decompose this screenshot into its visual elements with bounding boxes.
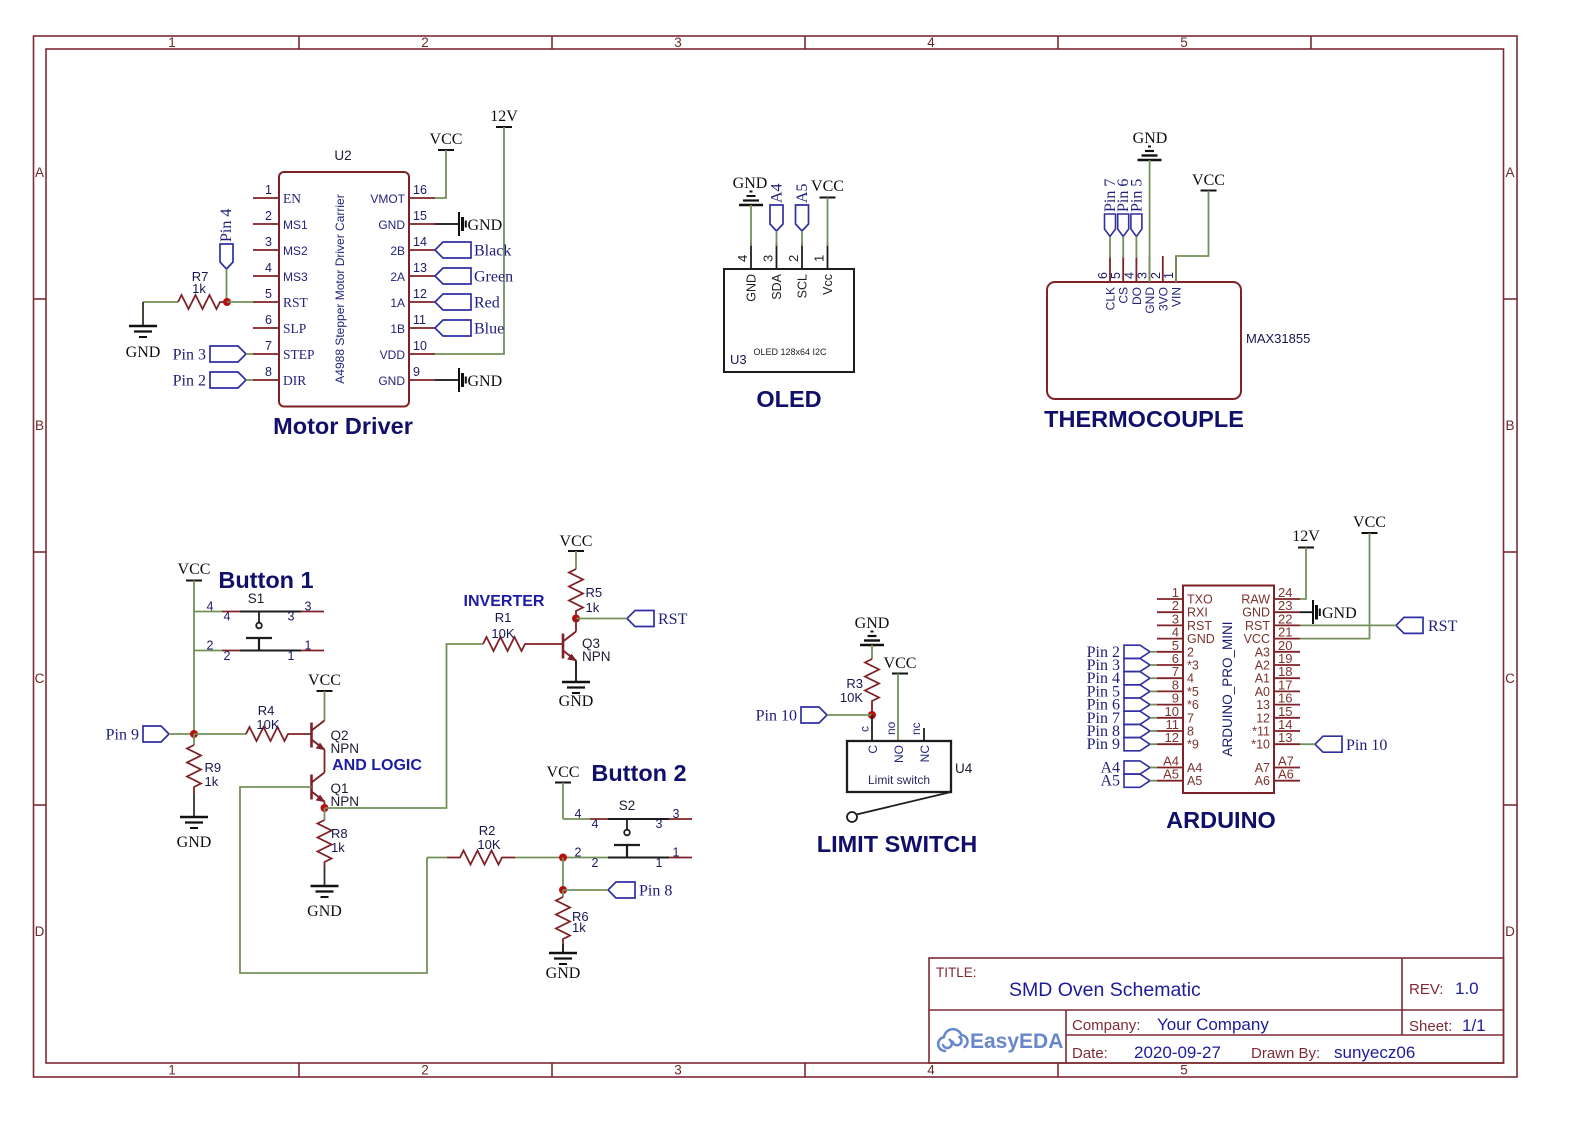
resistor R4 10K	[246, 703, 312, 741]
svg-text:7: 7	[1187, 711, 1194, 725]
svg-text:2020-09-27: 2020-09-27	[1134, 1043, 1221, 1062]
svg-text:RXI: RXI	[1187, 606, 1208, 620]
svg-text:B: B	[35, 418, 44, 433]
svg-text:RST: RST	[1245, 619, 1270, 633]
wire A4 flag to pin A4	[1150, 767, 1157, 769]
wire Pin5 flag to pin8	[1150, 690, 1157, 692]
wire VCC to arduino pin21	[1300, 533, 1370, 639]
svg-text:Pin 10: Pin 10	[756, 708, 797, 725]
net flag A5 (OLED SCL)	[794, 183, 811, 231]
wire Pin3 flag to U2 pin7	[246, 353, 253, 355]
svg-text:R8: R8	[331, 826, 348, 841]
svg-text:EN: EN	[283, 191, 301, 206]
svg-text:U3: U3	[730, 352, 747, 367]
svg-text:1A: 1A	[390, 296, 405, 310]
svg-text:10: 10	[413, 339, 427, 353]
OLED display U3 (OLED 128x64 I2C)	[724, 243, 854, 372]
svg-text:RST: RST	[1187, 619, 1212, 633]
net flag Green (U2 2A)	[435, 268, 513, 286]
svg-text:THERMOCOUPLE: THERMOCOUPLE	[1044, 406, 1244, 432]
svg-text:NPN: NPN	[331, 741, 360, 756]
svg-text:*6: *6	[1187, 698, 1199, 712]
svg-text:4: 4	[927, 1063, 935, 1078]
wire junction to RST flag	[576, 618, 627, 620]
svg-text:1: 1	[265, 183, 272, 197]
svg-text:GND: GND	[378, 374, 405, 388]
svg-text:GND: GND	[468, 373, 503, 390]
svg-text:3: 3	[674, 1063, 682, 1078]
ground GND (OLED pin4)	[733, 175, 768, 205]
svg-text:9: 9	[413, 365, 420, 379]
wire VCC rail to S1 pin4	[194, 611, 222, 613]
wire arduino RST to flag	[1300, 624, 1396, 626]
limit switch U4	[847, 721, 973, 822]
net flag Pin 8	[608, 882, 672, 900]
svg-text:MS2: MS2	[283, 244, 308, 258]
svg-text:Pin 9: Pin 9	[1087, 736, 1120, 753]
svg-text:6: 6	[1096, 272, 1110, 279]
svg-text:MS3: MS3	[283, 270, 308, 284]
svg-text:VCC: VCC	[884, 655, 917, 672]
svg-text:1k: 1k	[331, 840, 345, 855]
svg-text:13: 13	[1278, 730, 1292, 745]
svg-text:GND: GND	[468, 217, 503, 234]
net flag Red (U2 1A)	[435, 294, 500, 312]
ground GND (left of R7)	[126, 302, 161, 361]
svg-text:A: A	[1505, 165, 1514, 180]
svg-text:4: 4	[1187, 672, 1194, 686]
svg-text:GND: GND	[1143, 287, 1157, 314]
EasyEDA logo	[938, 1029, 1063, 1053]
svg-text:MAX31855: MAX31855	[1246, 331, 1310, 346]
svg-text:R2: R2	[479, 823, 496, 838]
svg-text:10K: 10K	[477, 837, 500, 852]
net flag Pin 4 (arduino D4)	[1087, 670, 1150, 687]
svg-text:A5: A5	[1163, 767, 1179, 782]
svg-text:D: D	[1505, 924, 1515, 939]
svg-text:3: 3	[305, 600, 312, 614]
resistor R5 1k	[569, 569, 602, 618]
svg-text:15: 15	[413, 209, 427, 223]
wire GND to OLED pin4	[750, 205, 752, 246]
wire Pin6 flag to pin9	[1150, 704, 1157, 706]
wire A5 flag to pin A5	[1150, 780, 1157, 782]
svg-text:2: 2	[1149, 272, 1163, 279]
wire VCC to MAX31855 pin1 VIN	[1176, 191, 1209, 283]
svg-text:4: 4	[265, 261, 272, 275]
svg-text:OLED 128x64 I2C: OLED 128x64 I2C	[753, 347, 827, 357]
thermocouple amplifier MAX31855	[1047, 256, 1310, 399]
svg-text:VIN: VIN	[1170, 287, 1184, 307]
junction node Q1 emitter / R8 / inverter input	[321, 804, 329, 812]
svg-text:VCC: VCC	[178, 561, 211, 578]
svg-text:GND: GND	[559, 693, 594, 710]
svg-text:2: 2	[786, 255, 801, 262]
svg-text:1: 1	[288, 649, 295, 663]
svg-text:GND: GND	[546, 965, 581, 982]
svg-text:Pin 2: Pin 2	[173, 373, 206, 390]
svg-text:13: 13	[1256, 698, 1270, 712]
wire Pin4 flag to RST node	[226, 269, 228, 302]
svg-text:STEP: STEP	[283, 347, 315, 362]
wire Pin8 flag to pin11	[1150, 730, 1157, 732]
wire Pin7 flag to CLK	[1109, 237, 1111, 259]
svg-text:10K: 10K	[840, 690, 863, 705]
svg-text:1: 1	[305, 639, 312, 653]
wire S1 pin2 rail	[194, 650, 222, 652]
svg-text:14: 14	[413, 235, 427, 249]
wire Pin3 flag to pin6	[1150, 664, 1157, 666]
wire Pin7 flag to pin10	[1150, 717, 1157, 719]
svg-text:C: C	[1505, 671, 1515, 686]
ground GND (arduino pin23)	[1300, 600, 1357, 624]
svg-text:*11: *11	[1252, 725, 1270, 739]
net flag Pin 2 (arduino D2)	[1087, 644, 1150, 661]
svg-text:DO: DO	[1130, 287, 1144, 305]
svg-text:RST: RST	[1428, 618, 1458, 635]
svg-text:A4988 Stepper Motor Driver Car: A4988 Stepper Motor Driver Carrier	[333, 194, 347, 383]
svg-text:c: c	[858, 726, 872, 732]
wire 12V to RAW pin24	[1300, 548, 1306, 600]
svg-text:Blue: Blue	[474, 321, 504, 338]
wire S1 pin4 to pin2 to Pin9 junction	[193, 612, 195, 735]
svg-text:RAW: RAW	[1241, 593, 1270, 607]
svg-text:C: C	[866, 745, 880, 754]
net flag Pin 7 (MAX31855 CLK)	[1102, 179, 1119, 237]
svg-text:VCC: VCC	[560, 533, 593, 550]
resistor R6 1k	[556, 890, 589, 944]
svg-text:U2: U2	[334, 148, 351, 163]
net flag A5 (arduino A5)	[1100, 773, 1150, 790]
svg-text:A6: A6	[1255, 774, 1270, 788]
power flag VCC (to U2 VMOT)	[430, 131, 463, 150]
svg-text:12V: 12V	[1292, 528, 1320, 545]
net flag Pin 9	[106, 726, 169, 744]
wire junction to Pin8 flag	[563, 889, 608, 891]
svg-text:8: 8	[1187, 725, 1194, 739]
svg-text:7: 7	[265, 339, 272, 353]
svg-text:10K: 10K	[256, 717, 279, 732]
ground GND (below R6)	[546, 944, 581, 982]
svg-text:4: 4	[927, 35, 935, 50]
svg-text:Date:: Date:	[1072, 1045, 1108, 1062]
junction node Q3 collector / R5 / RST	[572, 615, 580, 623]
svg-text:10K: 10K	[491, 626, 514, 641]
svg-text:1: 1	[168, 35, 176, 50]
svg-text:A4: A4	[769, 183, 786, 203]
svg-text:Drawn By:: Drawn By:	[1251, 1045, 1320, 1062]
svg-text:U4: U4	[955, 761, 973, 776]
svg-text:1: 1	[656, 856, 663, 870]
svg-text:CS: CS	[1117, 287, 1131, 304]
wire R2 to S2 pin2 junction	[515, 857, 608, 859]
svg-text:CLK: CLK	[1104, 287, 1118, 310]
svg-text:Green: Green	[474, 269, 513, 286]
wire Pin5 flag to DO	[1135, 237, 1137, 259]
svg-text:2: 2	[1187, 645, 1194, 659]
pushbutton S1	[207, 591, 324, 663]
svg-text:5: 5	[265, 287, 272, 301]
ground GND (MAX31855 GND)	[1133, 130, 1168, 160]
svg-text:2A: 2A	[390, 270, 405, 284]
net flag Pin 6 (MAX31855 CS)	[1115, 179, 1132, 237]
svg-text:Company:: Company:	[1072, 1017, 1140, 1034]
svg-text:*9: *9	[1187, 738, 1199, 752]
resistor R3 10K	[840, 659, 879, 715]
svg-text:3: 3	[656, 817, 663, 831]
power flag VCC (AND logic)	[308, 672, 341, 691]
wire VCC to OLED pin1	[827, 198, 829, 247]
svg-text:R9: R9	[205, 760, 222, 775]
svg-text:3: 3	[674, 35, 682, 50]
net flag Pin 9 (arduino D9)	[1087, 736, 1150, 753]
junction node R3 / Pin10 / C	[868, 711, 876, 719]
svg-text:3: 3	[673, 807, 680, 821]
microcontroller U1 ARDUINO_PRO_MINI	[1157, 585, 1300, 793]
transistor Q2 NPN	[312, 721, 360, 763]
svg-text:VCC: VCC	[811, 178, 844, 195]
svg-text:SDA: SDA	[770, 273, 784, 299]
svg-text:8: 8	[265, 365, 272, 379]
svg-text:REV:: REV:	[1409, 981, 1443, 998]
svg-text:12: 12	[1165, 730, 1179, 745]
svg-text:*10: *10	[1251, 738, 1270, 752]
svg-text:SMD Oven Schematic: SMD Oven Schematic	[1009, 979, 1201, 1001]
svg-text:Black: Black	[474, 243, 511, 260]
svg-text:S2: S2	[619, 798, 636, 813]
svg-text:12V: 12V	[490, 108, 518, 125]
wire GND to R3	[871, 645, 873, 659]
svg-text:Pin 4: Pin 4	[218, 209, 235, 242]
svg-text:GND: GND	[733, 175, 768, 192]
svg-text:3: 3	[761, 255, 776, 262]
power flag VCC (limit switch NO)	[884, 655, 917, 674]
svg-text:1: 1	[812, 255, 827, 262]
svg-text:C: C	[35, 671, 45, 686]
svg-text:VCC: VCC	[1192, 172, 1225, 189]
power flag VCC (arduino pin21)	[1353, 514, 1386, 533]
resistor R8 1k	[318, 808, 348, 867]
wire Pin6 flag to CS	[1122, 237, 1124, 259]
svg-text:1k: 1k	[205, 774, 219, 789]
svg-text:GND: GND	[1242, 606, 1270, 620]
svg-text:R5: R5	[586, 585, 603, 600]
junction node S2 pin2 / R2	[559, 854, 567, 862]
wire AND output to R1	[325, 644, 484, 808]
svg-text:1: 1	[673, 846, 680, 860]
svg-text:11: 11	[413, 313, 426, 327]
svg-text:R1: R1	[495, 610, 512, 625]
junction node Pin8 / R6	[559, 886, 567, 894]
wire junction down to Pin8 node	[562, 858, 564, 891]
svg-text:2B: 2B	[390, 244, 405, 258]
wire junction to limit switch C pin	[871, 715, 873, 741]
wire Pin9 flag to junction	[169, 733, 194, 735]
net flag Pin 7 (arduino D7)	[1087, 710, 1150, 727]
svg-text:GND: GND	[745, 274, 759, 302]
wire junction to U2 pin5 RST	[227, 301, 253, 303]
svg-text:Limit switch: Limit switch	[868, 773, 930, 787]
svg-text:5: 5	[1180, 1063, 1188, 1078]
svg-text:INVERTER: INVERTER	[464, 593, 545, 610]
svg-text:VCC: VCC	[1244, 632, 1270, 646]
net flag Pin 2 (U2 DIR)	[173, 372, 246, 390]
wire VCC to Q2 collector	[324, 691, 326, 721]
svg-text:GND: GND	[1322, 605, 1357, 622]
net flag Pin 3 (arduino D3)	[1087, 657, 1150, 674]
power flag VCC (button 1)	[178, 561, 211, 581]
wire Pin4 flag to pin7	[1150, 677, 1157, 679]
svg-text:2: 2	[265, 209, 272, 223]
svg-text:3: 3	[288, 610, 295, 624]
svg-text:*5: *5	[1187, 685, 1199, 699]
svg-text:12: 12	[413, 287, 427, 301]
net flag Pin 5 (arduino D5)	[1087, 683, 1150, 700]
wire Q1 base to bottom run	[240, 787, 427, 973]
svg-text:R4: R4	[258, 703, 275, 718]
svg-text:1: 1	[1162, 272, 1176, 279]
svg-text:LIMIT SWITCH: LIMIT SWITCH	[817, 831, 978, 857]
power flag VCC (inverter)	[560, 533, 593, 551]
svg-text:A3: A3	[1255, 645, 1270, 659]
svg-text:Button 2: Button 2	[591, 760, 686, 786]
net flag Pin 8 (arduino D8)	[1087, 723, 1150, 740]
wire S2 pin4 rail	[563, 818, 590, 820]
ground GND (Q3 emitter)	[559, 661, 594, 711]
net flag Pin 10	[756, 707, 827, 725]
power flag 12V (arduino RAW)	[1292, 528, 1320, 548]
svg-text:Motor Driver: Motor Driver	[273, 413, 413, 439]
svg-text:5: 5	[1109, 272, 1123, 279]
svg-text:1/1: 1/1	[1462, 1016, 1486, 1035]
resistor R7 1k	[178, 269, 227, 309]
junction node button1/R9/R4	[190, 730, 198, 738]
svg-text:GND: GND	[1133, 130, 1168, 147]
svg-text:VDD: VDD	[380, 348, 406, 362]
svg-text:Your Company: Your Company	[1157, 1015, 1269, 1034]
pushbutton S2	[575, 798, 692, 870]
transistor Q3 NPN	[563, 619, 611, 665]
net flag Pin 6 (arduino D6)	[1087, 697, 1150, 714]
power flag VCC (button 2)	[547, 764, 580, 783]
net flag Black (U2 2B)	[435, 242, 511, 260]
svg-text:*3: *3	[1187, 659, 1199, 673]
svg-text:4: 4	[735, 255, 750, 262]
svg-text:SLP: SLP	[283, 321, 306, 336]
net flag RST (inverter output)	[627, 611, 688, 629]
wire VCC to R5	[575, 551, 577, 569]
svg-text:RST: RST	[658, 611, 688, 628]
motor driver U2 (A4988 stepper driver module)	[253, 148, 435, 407]
wire 12V to U2 pin10	[435, 127, 504, 354]
svg-text:GND: GND	[126, 344, 161, 361]
svg-text:A5: A5	[1100, 773, 1120, 790]
svg-text:1: 1	[168, 1063, 176, 1078]
svg-text:ARDUINO: ARDUINO	[1166, 807, 1276, 833]
svg-text:OLED: OLED	[756, 386, 821, 412]
svg-text:B: B	[1505, 418, 1514, 433]
wire Pin2 flag to U2 pin8	[246, 379, 253, 381]
svg-text:NC: NC	[918, 745, 932, 763]
svg-text:S1: S1	[248, 591, 265, 606]
net flag Pin 5 (MAX31855 DO)	[1128, 179, 1145, 237]
ground GND (U2 pin9)	[435, 368, 502, 392]
ground GND (below R8)	[307, 867, 342, 920]
svg-text:A2: A2	[1255, 659, 1270, 673]
junction node RST/R7/Pin4	[223, 298, 231, 306]
svg-text:NPN: NPN	[582, 649, 611, 664]
svg-text:VCC: VCC	[308, 672, 341, 689]
wire Pin10 flag to junction	[827, 714, 872, 716]
svg-text:16: 16	[413, 183, 427, 197]
svg-text:Red: Red	[474, 295, 500, 312]
wire A5 flag to OLED pin2	[801, 231, 803, 246]
resistor R1 10K	[483, 610, 563, 651]
svg-text:no: no	[884, 721, 898, 735]
wire VCC to limit switch NO	[897, 674, 899, 742]
svg-text:GND: GND	[855, 615, 890, 632]
transistor Q1 NPN	[312, 763, 360, 810]
svg-text:Pin 10: Pin 10	[1346, 737, 1387, 754]
net flag Pin 10 (arduino *10)	[1315, 736, 1387, 754]
svg-text:ARDUINO_PRO_MINI: ARDUINO_PRO_MINI	[1220, 621, 1235, 756]
svg-text:D: D	[35, 924, 45, 939]
svg-text:GND: GND	[177, 834, 212, 851]
svg-text:3VO: 3VO	[1156, 287, 1170, 311]
svg-text:3: 3	[265, 235, 272, 249]
net flag Blue (U2 1B)	[435, 320, 504, 338]
svg-text:6: 6	[265, 313, 272, 327]
wire VCC to S2 pin4	[562, 783, 564, 820]
wire GND to MAX31855 pin3	[1149, 160, 1151, 282]
power flag VCC (MAX31855 VIN)	[1192, 172, 1225, 191]
resistor R2 10K	[427, 823, 515, 865]
net flag Pin 4 (above R7 junction)	[218, 209, 235, 269]
svg-text:R3: R3	[846, 676, 863, 691]
net flag Pin 3 (U2 STEP)	[173, 346, 246, 364]
svg-text:VMOT: VMOT	[370, 192, 405, 206]
ground GND (limit switch pull)	[855, 615, 890, 645]
svg-text:SCL: SCL	[796, 274, 810, 298]
svg-text:MS1: MS1	[283, 218, 308, 232]
svg-text:Pin 8: Pin 8	[639, 883, 672, 900]
svg-text:Pin 3: Pin 3	[173, 347, 206, 364]
svg-text:GND: GND	[307, 903, 342, 920]
net flag A4 (OLED SDA)	[769, 183, 786, 231]
net flag RST (arduino pin22)	[1396, 617, 1458, 635]
svg-text:4: 4	[1122, 272, 1136, 279]
svg-text:Vcc: Vcc	[821, 274, 835, 295]
svg-text:2: 2	[421, 35, 429, 50]
svg-text:AND LOGIC: AND LOGIC	[332, 757, 422, 774]
resistor R9 1k	[187, 734, 221, 794]
ground GND (U2 pin15)	[435, 212, 502, 236]
wire VCC to S1 pin4	[193, 581, 195, 612]
svg-text:sunyecz06: sunyecz06	[1334, 1043, 1415, 1062]
wire GND to R7	[143, 301, 178, 303]
svg-text:VCC: VCC	[1353, 514, 1386, 531]
svg-text:A1: A1	[1255, 672, 1270, 686]
svg-text:RST: RST	[283, 295, 309, 310]
svg-text:EasyEDA: EasyEDA	[970, 1030, 1063, 1053]
svg-text:TXO: TXO	[1187, 593, 1213, 607]
svg-text:GND: GND	[378, 218, 405, 232]
svg-text:Button 1: Button 1	[218, 567, 313, 593]
svg-text:2: 2	[421, 1063, 429, 1078]
wire Pin2 flag to pin5	[1150, 651, 1157, 653]
svg-text:1.0: 1.0	[1455, 979, 1479, 998]
svg-text:13: 13	[413, 261, 427, 275]
